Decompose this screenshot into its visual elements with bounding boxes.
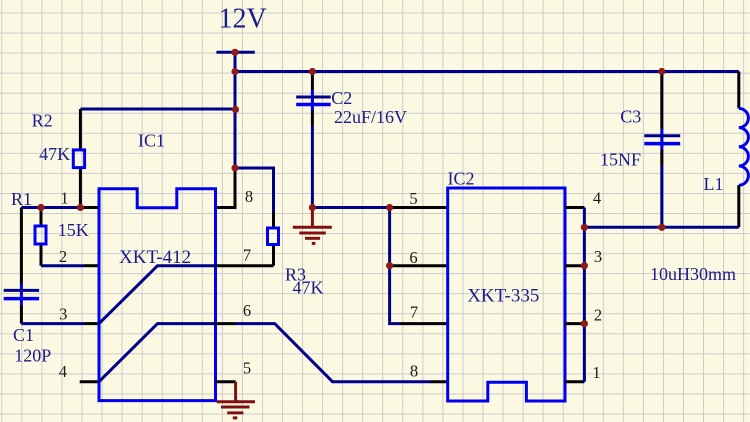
pin 5 IC2 stub [390, 206, 448, 209]
resistor R1 [35, 208, 46, 266]
pin 6 IC2 stub [390, 264, 448, 267]
pin 8 wire IC1 vertical [216, 168, 236, 208]
svg-text:22uF/16V: 22uF/16V [334, 107, 407, 127]
pin 6 IC1 stub [216, 322, 237, 325]
svg-text:3: 3 [594, 247, 602, 266]
junction dot rail at 12V [231, 68, 238, 75]
pin 3 IC2 stub [565, 264, 584, 267]
capacitor C3 [644, 72, 680, 228]
svg-text:12V: 12V [219, 3, 267, 34]
svg-text:15NF: 15NF [600, 150, 641, 170]
junction dot pin6 IC2 node [386, 262, 393, 269]
transistor module IC2 body outline XKT-335 [448, 188, 565, 401]
junction dot pin1 node [77, 204, 84, 211]
svg-text:5: 5 [243, 359, 251, 378]
op-amp U1 IC1 body outline XKT-412 [99, 189, 216, 401]
svg-text:7: 7 [410, 302, 418, 321]
wire pin3 to pin7 diagonal [99, 266, 216, 324]
wire pin4 to pin6 diagonal [99, 324, 216, 382]
svg-text:R1: R1 [11, 189, 32, 209]
wire pin6 to pin7 IC2 [390, 266, 400, 324]
svg-text:10uH30mm: 10uH30mm [650, 264, 736, 284]
junction dot bus at 227 [581, 224, 588, 231]
junction dot R1 top [37, 204, 44, 211]
pin 4 IC2 stub [565, 206, 584, 209]
svg-text:47K: 47K [39, 144, 70, 164]
junction dot C3 bottom [658, 224, 665, 231]
junction dot rail at C3 [658, 68, 665, 75]
resistor R2 [73, 109, 84, 208]
svg-text:R2: R2 [32, 111, 53, 131]
pin 8 IC2 stub [430, 380, 448, 383]
wire pin5 to pin6 IC2 [388, 208, 391, 266]
svg-text:IC1: IC1 [138, 131, 165, 151]
ground under pin 5 IC1 [217, 382, 255, 418]
junction dot R3 wire [231, 164, 238, 171]
pin 3 IC1 stub [84, 322, 99, 325]
capacitor C1 [4, 208, 39, 324]
svg-text:5: 5 [409, 189, 417, 208]
svg-text:15K: 15K [58, 220, 89, 240]
wire pin4 bus to L1 [584, 226, 738, 229]
pin 7 IC1 stub [216, 264, 274, 267]
pin 5 IC1 stub [216, 380, 236, 383]
junction dot pin2 IC2 node [581, 320, 588, 327]
svg-text:XKT-335: XKT-335 [467, 286, 539, 307]
svg-text:C1: C1 [13, 325, 34, 345]
svg-text:L1: L1 [704, 174, 724, 194]
svg-text:4: 4 [593, 189, 601, 208]
wire R2 top [80, 108, 235, 111]
wire node pin3 row [21, 322, 84, 325]
pin 1 IC2 stub [565, 380, 584, 383]
svg-text:IC2: IC2 [448, 169, 475, 189]
svg-text:7: 7 [243, 246, 251, 265]
svg-text:8: 8 [245, 187, 253, 206]
junction dot pin5 IC2 node [386, 204, 393, 211]
junction dot rail at C2 [309, 68, 316, 75]
svg-text:2: 2 [594, 306, 602, 325]
wire pin6 IC1 to pin8 IC2 [236, 324, 430, 382]
resistor R3 [268, 212, 279, 266]
svg-text:C3: C3 [620, 107, 641, 127]
junction dot 12V bar [231, 49, 238, 56]
wire +12V rail [235, 70, 739, 73]
svg-text:2: 2 [59, 247, 67, 266]
pin 4 IC1 stub [80, 380, 99, 383]
pin 2 IC2 stub [565, 322, 584, 325]
pin 1 IC1 stub [83, 206, 99, 209]
capacitor C2 [296, 72, 331, 208]
wire node pin1 row [21, 206, 83, 209]
svg-text:C2: C2 [331, 88, 352, 108]
pin 2 IC1 stub [84, 264, 99, 267]
junction dot pin3 IC2 node [581, 262, 588, 269]
svg-text:4: 4 [59, 362, 67, 381]
pin 7 IC2 stub [400, 322, 448, 325]
svg-text:47K: 47K [293, 278, 324, 298]
power bar 12V [216, 51, 254, 54]
ground under C2 [293, 208, 332, 244]
wire C2 to pin5 IC2 [312, 206, 389, 209]
svg-text:3: 3 [59, 305, 67, 324]
wire 12V vertical [234, 52, 237, 168]
inductor L1 [739, 72, 749, 228]
svg-text:8: 8 [410, 362, 418, 381]
wire 12V to R3 [235, 168, 274, 212]
junction dot C2 ground node [309, 204, 316, 211]
wire node pin2 row [41, 264, 84, 267]
junction dot R2 wire [232, 106, 239, 113]
svg-text:6: 6 [243, 301, 251, 320]
svg-text:1: 1 [60, 188, 68, 207]
svg-text:6: 6 [409, 248, 417, 267]
svg-text:1: 1 [592, 363, 600, 382]
svg-text:120P: 120P [14, 346, 51, 366]
wire IC2 right bus [583, 208, 586, 382]
